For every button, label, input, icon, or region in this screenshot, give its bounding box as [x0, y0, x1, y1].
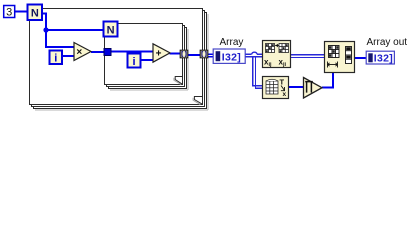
svg-text:N: N [107, 24, 115, 36]
svg-text:N: N [31, 7, 39, 19]
svg-text:T: T [280, 78, 285, 87]
svg-text:+: + [156, 49, 162, 60]
svg-text:x: x [283, 91, 287, 98]
svg-text:Array out: Array out [367, 37, 408, 48]
svg-text:i: i [54, 53, 57, 65]
svg-text:×: × [76, 47, 82, 58]
svg-text:3: 3 [6, 7, 12, 19]
svg-text:I32]: I32] [222, 51, 241, 63]
svg-text:Array: Array [220, 37, 244, 48]
svg-text:i: i [132, 56, 135, 68]
svg-text:I32]: I32] [374, 53, 393, 65]
